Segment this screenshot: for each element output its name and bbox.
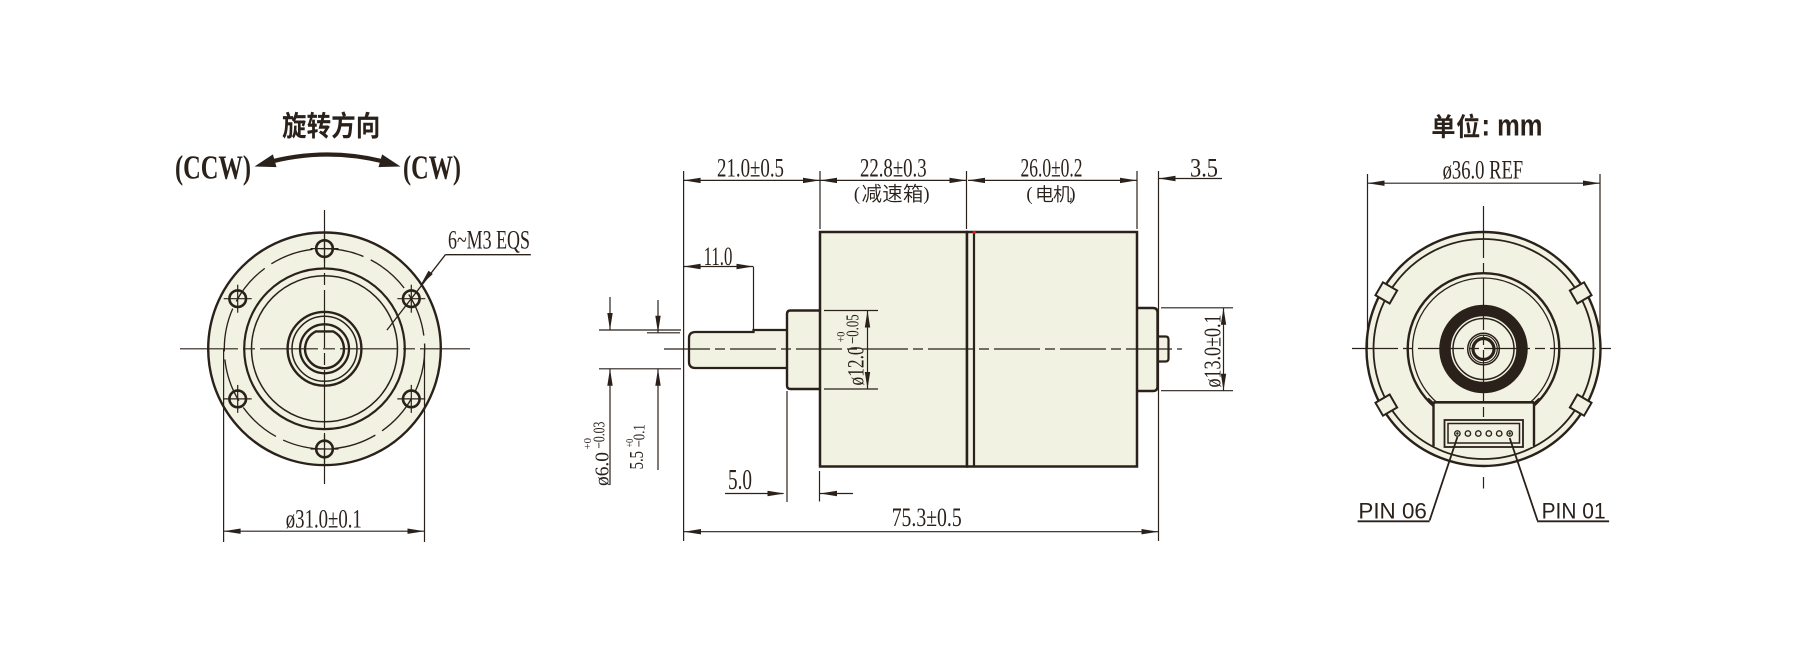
extension line gearbox face — [819, 171, 821, 229]
rear view vertical centerline top — [1483, 206, 1485, 418]
connector housing — [1434, 404, 1535, 448]
rear bearing heavy ring — [1445, 311, 1522, 388]
front view flange inner circle thin — [252, 276, 398, 422]
motor can lip line — [973, 233, 975, 466]
svg-text:6~M3 EQS: 6~M3 EQS — [448, 224, 530, 254]
output shaft with flat — [689, 330, 790, 368]
svg-text:PIN 06: PIN 06 — [1358, 499, 1427, 524]
svg-text:PIN 01: PIN 01 — [1542, 499, 1606, 524]
extension line shaft flat end — [753, 267, 755, 331]
svg-text:(: ( — [854, 185, 860, 205]
svg-text:): ) — [1069, 185, 1075, 205]
dimension 75.3 line — [684, 531, 1159, 533]
dimension 11.0 line — [684, 266, 754, 268]
front view shaft boss circle — [300, 324, 349, 373]
dimension 31.0 line — [224, 530, 425, 532]
four housing notches — [1570, 282, 1592, 303]
rear view outer circle — [1367, 232, 1601, 466]
svg-text:5.0: 5.0 — [728, 465, 752, 496]
rear end cap circle — [1408, 273, 1560, 425]
gearbox body — [820, 232, 967, 467]
dimension 36.0 extension lines — [1367, 174, 1369, 348]
dimension dia6 line — [609, 297, 611, 330]
rear shaft stub — [1156, 337, 1169, 362]
rear bearing boss — [1135, 308, 1158, 391]
svg-text:22.8±0.3: 22.8±0.3 — [860, 153, 927, 183]
dimension dia13 witness lines — [1161, 307, 1233, 309]
svg-text:): ) — [923, 185, 929, 205]
rear hub circle b — [1470, 335, 1498, 363]
rear view horizontal centerline — [1352, 348, 1614, 350]
svg-text:(: ( — [1026, 185, 1032, 205]
leader PIN 01 — [1510, 438, 1538, 521]
svg-text:ø36.0 REF: ø36.0 REF — [1443, 155, 1524, 185]
svg-text:(CCW): (CCW) — [175, 150, 251, 187]
connector inner rect — [1448, 424, 1520, 444]
svg-text:11.0: 11.0 — [704, 241, 733, 271]
motor body — [967, 232, 1137, 467]
red marker dot at joint — [973, 231, 976, 234]
connector pins — [1455, 431, 1460, 436]
front view vertical centerline — [324, 210, 326, 484]
dimension dia12 line — [867, 311, 869, 390]
svg-text:: mm: : mm — [1482, 107, 1543, 142]
dimension 22.8 line — [820, 179, 967, 181]
front view hub circle thin — [292, 316, 357, 381]
rear bearing inner thin circle — [1453, 319, 1514, 380]
dimension 26.0 line — [968, 179, 1137, 181]
rear hub circle a — [1468, 333, 1500, 365]
svg-text:75.3±0.5: 75.3±0.5 — [892, 502, 962, 532]
rear end cap inner circle — [1413, 278, 1555, 420]
rear shaft circle — [1473, 339, 1494, 360]
dimension 21.0 line — [684, 179, 820, 181]
extension line gearbox/motor joint — [966, 171, 968, 229]
extension line motor rear — [1136, 171, 1138, 229]
leader 6~M3 EQS — [445, 254, 530, 256]
six M3 mounting holes with crosshairs — [316, 240, 333, 257]
dimension 5.5 line — [657, 300, 659, 333]
connector outer rect — [1445, 420, 1524, 447]
rear view vertical centerline bottom — [1483, 477, 1485, 489]
curved double arrow — [264, 155, 391, 164]
extension line rear boss end — [1158, 171, 1160, 541]
dimension 31.0 extension lines — [223, 349, 225, 542]
rear view inner ring circle — [1374, 239, 1594, 459]
dimension dia13 line — [1223, 308, 1225, 391]
leader PIN 06 — [1430, 437, 1458, 521]
front view bolt circle dashed — [224, 249, 424, 449]
dimension dia6 witness lines — [599, 329, 681, 331]
dimension 5.0 line — [725, 493, 784, 495]
front view hub circle thick — [288, 312, 362, 386]
dimension dia12 witness lines — [824, 310, 878, 312]
dimension 5.5 witness line — [647, 332, 680, 334]
svg-text:(CW): (CW) — [403, 150, 461, 187]
unit label Chinese — [1432, 114, 1454, 138]
front view flange inner circle thick — [244, 269, 405, 430]
side view centerline — [664, 348, 1182, 350]
front view horizontal centerline — [180, 348, 470, 350]
dimension 3.5 line — [1159, 178, 1223, 180]
front view outer flange circle — [208, 232, 441, 465]
svg-text:3.5: 3.5 — [1190, 153, 1218, 183]
dimension 5.0 extension lines — [786, 391, 788, 502]
extension line shaft tip — [683, 171, 685, 541]
front bearing boss — [787, 311, 822, 390]
svg-text:ø31.0±0.1: ø31.0±0.1 — [286, 504, 362, 534]
svg-text:26.0±0.2: 26.0±0.2 — [1021, 153, 1083, 183]
title rotation direction (Chinese) — [283, 112, 307, 139]
svg-text:ø13.0±0.1: ø13.0±0.1 — [1200, 315, 1227, 388]
front view D-shaft circle with flat — [305, 331, 344, 368]
svg-text:21.0±0.5: 21.0±0.5 — [717, 153, 784, 183]
dimension 36.0 line — [1368, 182, 1601, 184]
